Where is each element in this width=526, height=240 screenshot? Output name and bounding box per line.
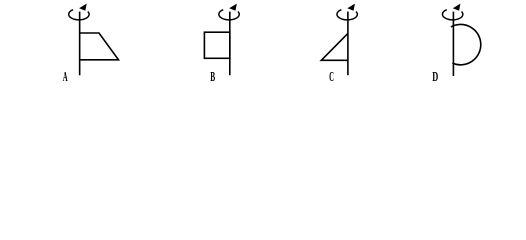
arc D <box>451 24 481 64</box>
rotation arrow B <box>219 4 239 20</box>
axis C <box>347 12 349 76</box>
triangle C <box>321 33 348 60</box>
svg-text:A: A <box>63 69 68 84</box>
square B <box>204 32 229 58</box>
rotation arrow C <box>337 4 357 20</box>
svg-text:B: B <box>210 69 215 84</box>
rotation arrow D <box>442 4 462 20</box>
svg-text:C: C <box>329 69 334 84</box>
axis B <box>229 12 231 76</box>
svg-text:D: D <box>432 69 438 84</box>
axis D <box>452 12 454 76</box>
trapezoid A <box>80 33 119 60</box>
rotation arrow A <box>69 4 89 20</box>
axis A <box>79 12 81 76</box>
